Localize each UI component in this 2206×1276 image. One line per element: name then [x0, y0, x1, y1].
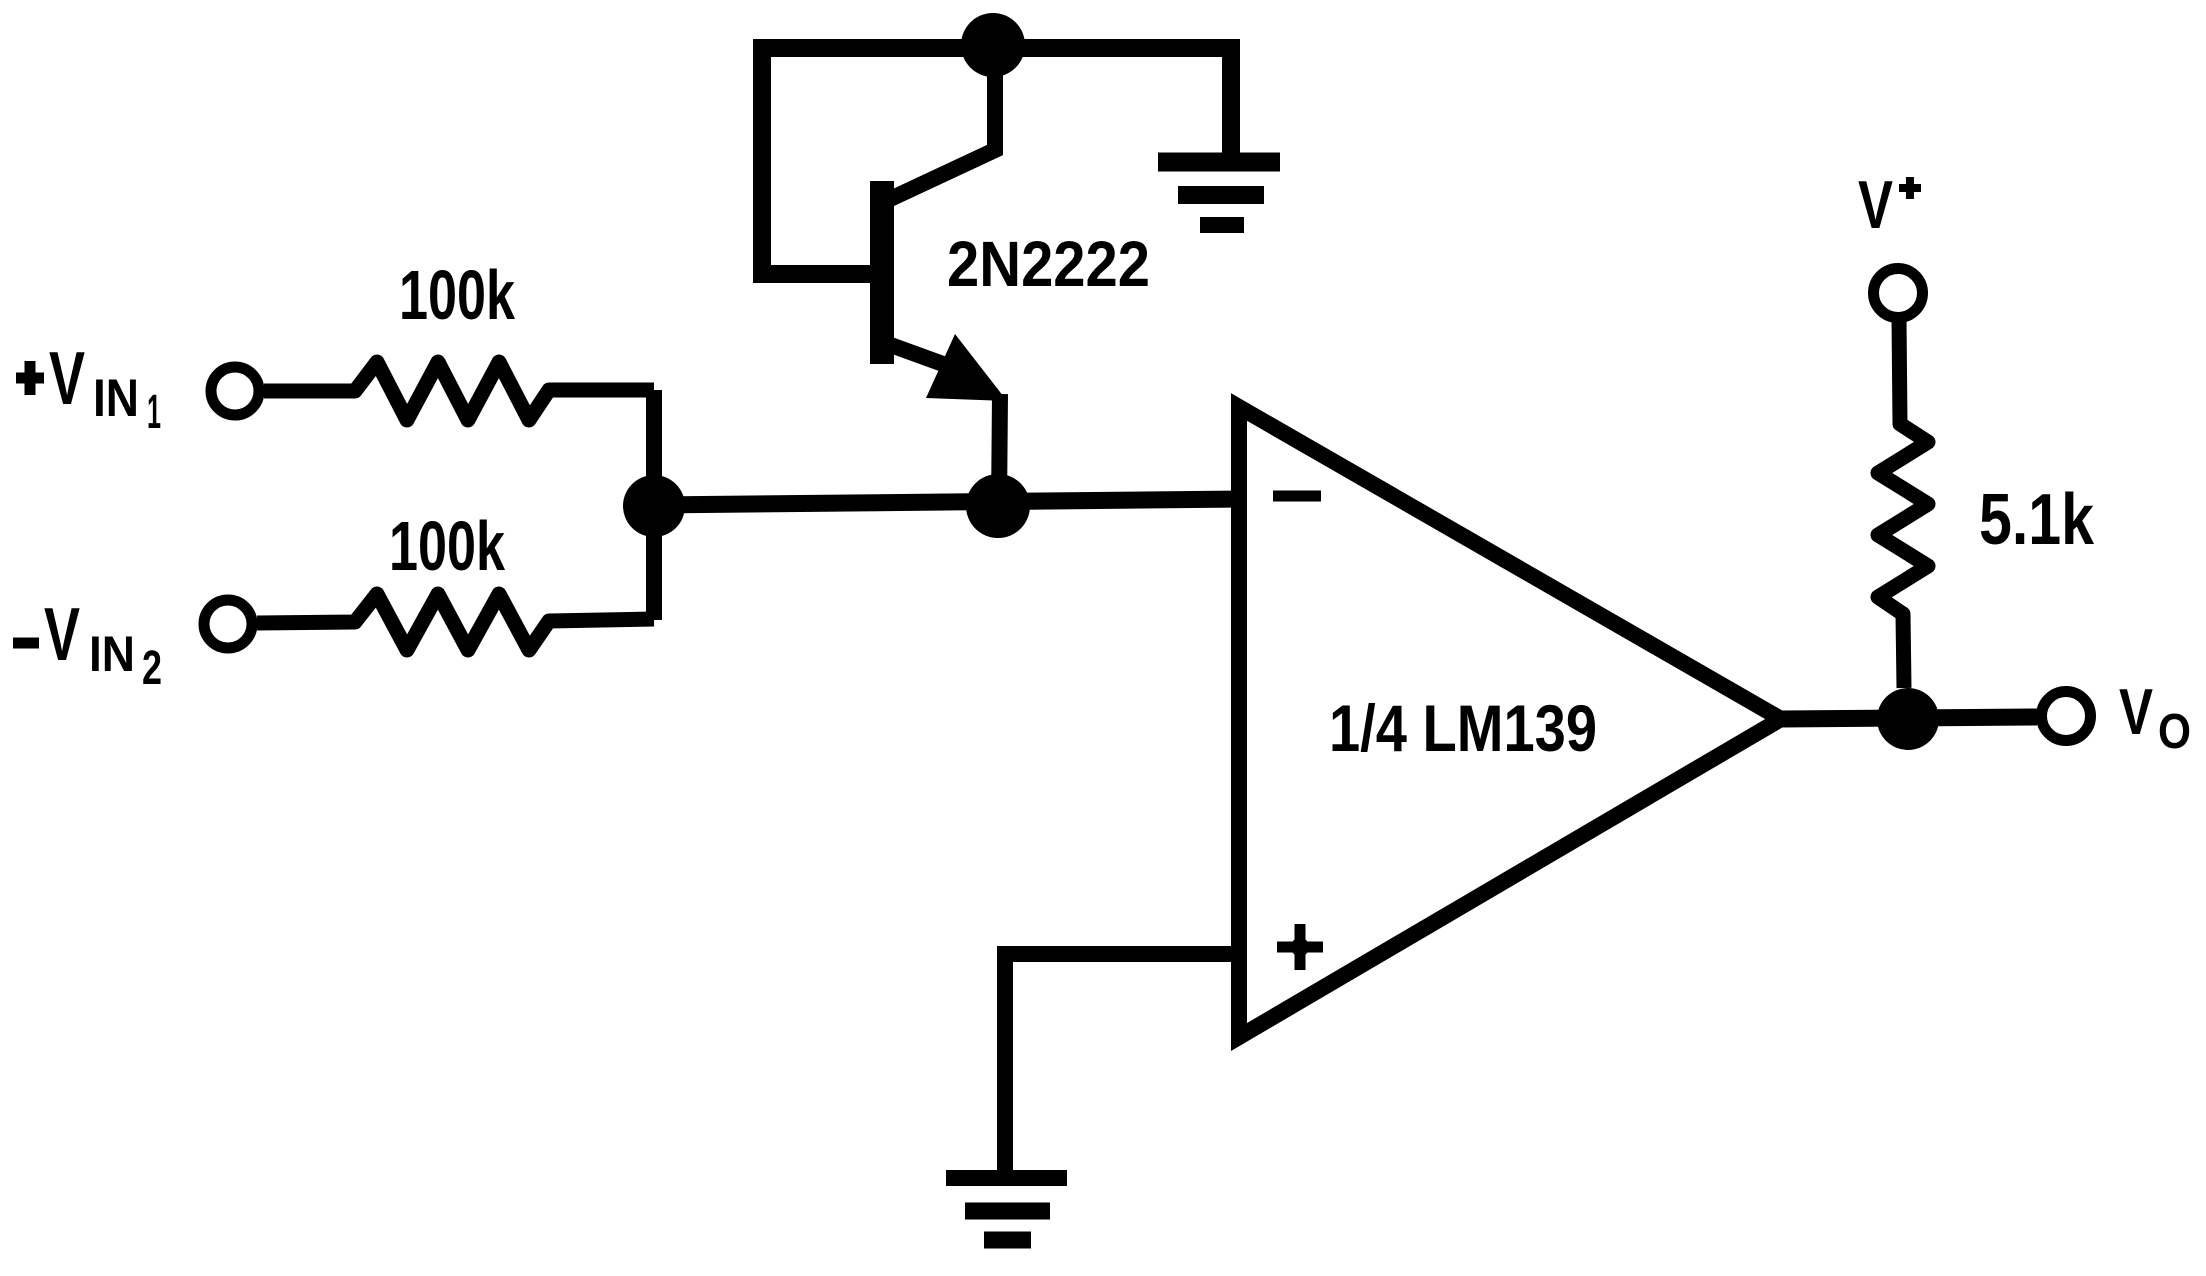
- wire non-inverting input to ground: [1005, 954, 1243, 1172]
- svg-text:2N2222: 2N2222: [947, 228, 1150, 300]
- resistor R2 100k: [257, 594, 654, 650]
- svg-text:100k: 100k: [389, 507, 505, 585]
- node output junction dot: [1877, 688, 1939, 750]
- label +VIN1: [16, 336, 161, 439]
- emitter arrowhead: [926, 334, 1007, 401]
- svg-text:V: V: [49, 336, 85, 420]
- wire output: [1781, 717, 2037, 719]
- svg-text:V: V: [44, 592, 80, 676]
- svg-text:IN: IN: [93, 369, 139, 428]
- node emitter junction dot: [966, 474, 1030, 538]
- svg-text:1/4 LM139: 1/4 LM139: [1329, 691, 1597, 765]
- svg-text:1: 1: [147, 386, 161, 439]
- terminal V+: [1874, 269, 1923, 318]
- emitter lead: [888, 344, 1000, 507]
- node top junction dot: [961, 13, 1025, 77]
- wire collector loop top: [762, 48, 993, 274]
- terminal VO: [2042, 692, 2091, 741]
- ground (bottom): [946, 1178, 1067, 1240]
- label V+: [1858, 167, 1921, 243]
- node A junction dot: [623, 475, 685, 537]
- wire main horizontal node A to comparator inverting input: [654, 499, 1243, 505]
- label -VIN2: [13, 592, 162, 695]
- svg-text:IN: IN: [89, 626, 135, 682]
- resistor R3 5.1k vertical: [1878, 318, 1928, 688]
- op-amp U1 1/4 LM139: [1239, 407, 1781, 1037]
- collector lead: [888, 55, 995, 200]
- svg-text:5.1k: 5.1k: [1979, 480, 2095, 560]
- svg-text:2: 2: [142, 642, 162, 695]
- svg-text:100k: 100k: [399, 256, 515, 334]
- svg-text:V: V: [2119, 675, 2153, 748]
- base bar: [870, 181, 894, 364]
- minus symbol inverting input: [1273, 491, 1321, 502]
- terminal VIN2: [204, 600, 252, 648]
- plus symbol non-inverting input: [1277, 924, 1323, 970]
- resistor R1 100k: [264, 362, 654, 420]
- ground (top right): [1158, 162, 1280, 225]
- svg-text:O: O: [2158, 705, 2191, 759]
- label VO: [2119, 675, 2191, 759]
- wire vertical joining R1 and R2 at node A: [646, 390, 662, 620]
- svg-text:V: V: [1858, 167, 1893, 243]
- wire top node to ground: [993, 48, 1231, 162]
- transistor Q1 2N2222: [882, 55, 1007, 507]
- terminal VIN1: [211, 367, 259, 415]
